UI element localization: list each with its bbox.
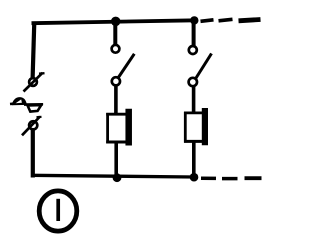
plug connector X2 <box>10 97 43 112</box>
wire: left branch lower segment <box>31 130 35 178</box>
node: top bus / branch 1 junction <box>111 17 121 27</box>
terminal X3 (slashed circle, lower) <box>22 117 42 136</box>
wire: branch 1 middle <box>114 86 118 115</box>
wire: branch 1 stub <box>113 22 117 45</box>
switch Q2 (open contact) <box>189 46 212 86</box>
wire: bottom bus <box>31 175 194 177</box>
wire: bottom bus dashed continuation <box>201 176 262 180</box>
wire: branch 1 lower <box>114 142 118 178</box>
wire: left branch upper segment <box>33 22 35 79</box>
node: top bus / branch 2 junction <box>190 16 198 24</box>
node: bottom bus / branch 1 junction <box>113 173 122 182</box>
wire: branch 2 lower <box>192 142 196 178</box>
node: bottom bus / branch 2 junction <box>190 173 199 182</box>
wire: branch 2 stub <box>192 21 196 46</box>
figure number 1 <box>56 199 60 221</box>
wire: top bus <box>32 20 197 23</box>
fuse F2 <box>184 108 205 145</box>
wire: top bus dashed continuation <box>201 19 261 21</box>
terminal X1 (slashed circle, upper) <box>24 73 45 92</box>
figure label circle <box>39 191 77 231</box>
wire: branch 2 middle <box>192 87 196 114</box>
switch Q1 (open contact) <box>112 45 135 86</box>
fuse F1 <box>106 109 129 146</box>
